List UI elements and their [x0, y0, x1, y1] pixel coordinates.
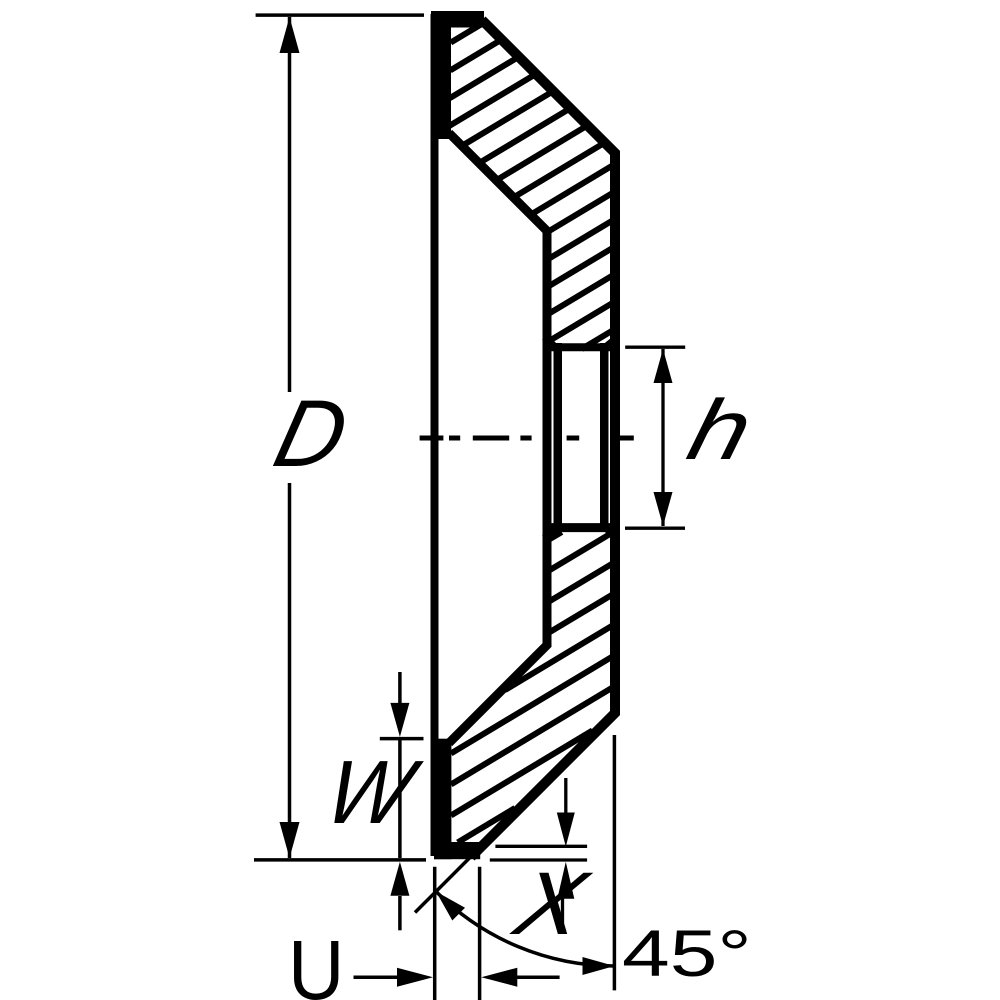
- bore: [544, 337, 617, 538]
- abrasive rim blocks: [431, 11, 484, 859]
- dimension h: [625, 347, 685, 528]
- arrow U right: [397, 968, 433, 987]
- arrowheads: [280, 17, 673, 987]
- arrow U left: [481, 968, 517, 987]
- arrow arc lower: [583, 957, 615, 975]
- left face: [431, 14, 439, 856]
- inner profile: [449, 133, 547, 743]
- 45-degree dimension: [415, 735, 615, 990]
- arrow arc upper: [436, 892, 465, 921]
- bore chamfer ticks: [544, 337, 560, 350]
- dimension U: [354, 867, 560, 1000]
- wheel outline: [435, 14, 616, 857]
- svg-text:U: U: [288, 924, 344, 1000]
- dimension X: [490, 778, 587, 931]
- svg-text:45°: 45°: [622, 917, 752, 990]
- outer profile: [471, 20, 615, 857]
- bottom rim block: [434, 739, 451, 860]
- arrow D bottom: [280, 822, 300, 858]
- arrow D top: [280, 17, 300, 53]
- arrow h top: [654, 349, 673, 383]
- dimension D: [254, 15, 426, 860]
- arrow X down: [557, 813, 575, 847]
- arrow h bottom: [654, 492, 673, 526]
- arrow W bottom: [390, 862, 409, 896]
- dimension W: [380, 672, 424, 930]
- arrow X up: [557, 862, 574, 899]
- section hatching: [449, 25, 612, 842]
- top rim block: [431, 11, 484, 28]
- centerline (dash-dot axis): [420, 436, 634, 441]
- arrow W top: [390, 703, 409, 737]
